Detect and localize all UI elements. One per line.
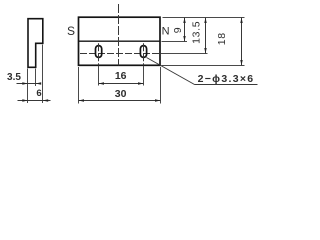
right side: top extension line	[163, 17, 245, 19]
dimension line 30	[79, 100, 161, 102]
extension line 30 left	[78, 67, 80, 104]
arrow 30 left (inside, tip at x=78.5)	[79, 99, 85, 101]
right side: step extension line	[162, 41, 188, 43]
slot 1 vertical centerline	[98, 43, 100, 65]
svg-text:13.5: 13.5	[191, 21, 203, 44]
svg-text:S: S	[67, 24, 75, 38]
arrow 30 right (inside, tip at x=160)	[155, 99, 161, 101]
extension line right of 3.5 dim	[35, 69, 37, 87]
extension line left of 3.5 dim	[27, 69, 29, 104]
arrow 9 top	[183, 18, 185, 24]
arrow 3.5 right (outside, tip left at x=35.7)	[36, 82, 42, 84]
svg-text:16: 16	[115, 70, 127, 82]
svg-text:18: 18	[216, 32, 228, 45]
extension line right of 6 dim	[42, 45, 44, 104]
dimension line 6	[18, 100, 51, 102]
leader underline	[195, 84, 258, 86]
right side: bottom extension line	[162, 65, 245, 67]
slot 2 extension line below part	[143, 66, 145, 86]
svg-text:N: N	[162, 25, 170, 37]
dimension line 3.5	[17, 83, 42, 85]
arrow 6 right (outside, tip left at x=42.8)	[43, 99, 49, 101]
dimension line 16	[99, 83, 144, 85]
main vertical centerline	[118, 4, 120, 66]
slot 1 extension line below part	[98, 66, 100, 86]
arrow 18 bottom	[240, 60, 242, 66]
svg-text:9: 9	[172, 27, 184, 33]
dimension line 9 (vertical)	[184, 18, 186, 42]
arrow 9 bottom	[183, 36, 185, 42]
arrow 16 right (inside, tip at x=143.2)	[138, 82, 144, 84]
horizontal centerline through slots	[80, 53, 161, 55]
svg-text:2−ϕ3.3×6: 2−ϕ3.3×6	[198, 73, 255, 85]
arrow 13.5 bottom	[204, 48, 206, 54]
slot hole 2 (obround)	[140, 46, 146, 58]
slot hole 1 (obround)	[96, 46, 102, 58]
svg-text:30: 30	[115, 88, 127, 100]
arrow 3.5 left (outside, tip right at x=28)	[22, 82, 28, 84]
main front view outer rectangle	[79, 17, 161, 65]
step edge line across main view	[79, 40, 161, 42]
arrow 16 left (inside, tip at x=98.8)	[99, 82, 105, 84]
arrow 18 top	[240, 18, 242, 24]
svg-text:6: 6	[36, 88, 41, 99]
arrow 6 left (outside, tip right at x=28)	[22, 99, 28, 101]
slot 2 vertical centerline	[143, 43, 145, 65]
extension line 30 right	[160, 67, 162, 104]
leader line from slot 2 (diagonal)	[147, 58, 195, 85]
arrow 13.5 top	[204, 18, 206, 24]
left profile view outline	[28, 19, 43, 68]
dimension line 13.5 (vertical)	[205, 18, 207, 54]
dimension line 18 (vertical)	[241, 18, 243, 66]
svg-text:3.5: 3.5	[7, 72, 21, 83]
centerline extension to 13.5 dim	[161, 53, 208, 55]
